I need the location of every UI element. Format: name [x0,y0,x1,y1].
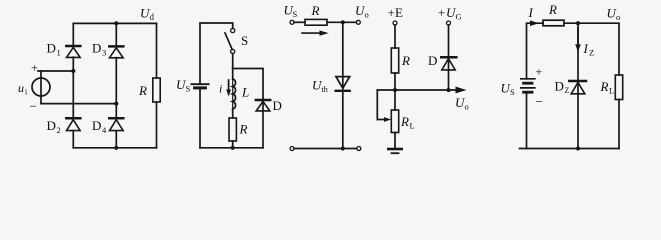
diode D (circuit 2 freewheeling) [256,99,270,147]
switch S [225,28,235,53]
svg-text:3: 3 [102,48,106,58]
svg-text:R: R [401,53,410,68]
label D1 [47,41,61,58]
terminal +U_G [447,21,451,25]
label plus [31,61,38,75]
svg-text:o: o [465,102,469,112]
resistor R (load, circuit 1) [153,23,160,147]
wire output line with nodes [377,89,456,91]
svg-text:L: L [609,86,614,96]
resistor R_L (circuit 5) [615,75,622,149]
label D2 [47,118,61,135]
diode D1 [66,23,80,71]
current arrow i [226,80,231,97]
node bottom junction circuit 5 [576,147,580,151]
diode D (circuit 4) [441,57,456,90]
svg-text:i: i [219,82,222,96]
svg-text:D: D [273,98,282,113]
label R (circuit 2) [239,122,248,137]
label L [241,85,249,100]
svg-text:L: L [241,85,249,100]
diode D2 [66,71,80,148]
svg-text:+: + [438,5,445,20]
resistor R (circuit 4) [391,48,398,73]
label I [528,5,534,20]
wire input to resistor [294,21,305,23]
wire branch to diode top [233,69,263,100]
svg-text:Z: Z [589,48,594,58]
wire left rail bottom circuit 2 [199,90,201,148]
label D (circuit 4) [428,53,437,68]
svg-text:−: − [536,94,543,109]
terminal input top [290,20,294,24]
wire bottom rail circuit 3 [294,148,357,150]
label U_d [140,6,155,23]
wire source minus to right midpoint [41,103,116,105]
label +U_G [438,5,462,22]
ground [388,149,401,153]
svg-text:I: I [528,5,534,20]
wire node down to diode [342,22,344,76]
source u_i [32,71,50,104]
current arrow I_Z [575,28,581,52]
node below D [446,88,450,92]
label S [241,33,248,48]
svg-text:R: R [239,122,248,137]
svg-text:2: 2 [57,125,61,135]
wire top rail [73,22,156,24]
svg-text:L: L [410,121,415,131]
svg-text:1: 1 [57,48,61,58]
diode U_th (pointing down) [336,77,350,91]
terminal output bottom [357,147,361,151]
svg-text:D: D [47,41,56,56]
svg-text:−: − [30,99,37,114]
inductor L [233,69,236,119]
svg-text:D: D [92,41,101,56]
node top-rail junction [114,21,118,25]
wire wiper loop [377,90,385,120]
wire node down through zener branch [577,23,579,80]
current arrow (circuit 3) [302,30,329,35]
node below R circuit 5 [576,21,580,25]
wire node to R_L [394,90,396,110]
label U_th [312,78,328,95]
label R (circuit 3) [311,3,320,18]
resistor R (circuit 5, horizontal) [543,20,564,26]
svg-text:i: i [25,88,28,97]
wire switch to branch junction [232,54,234,69]
svg-text:R: R [400,114,409,129]
battery U_S (circuit 5) [521,79,535,92]
svg-text:D: D [428,53,437,68]
svg-text:S: S [186,84,191,94]
battery U_S (circuit 2) [191,84,208,88]
node bottom-rail junction [114,146,118,150]
label U_o (circuit 5) [607,6,621,23]
node B (right bridge midpoint) [114,102,118,106]
label i [219,82,222,96]
wire resistor to mid node [394,73,396,90]
label minus (circuit 5) [536,94,543,109]
wire top rail circuit 5 [527,23,544,79]
node top junction circuit 3 [341,20,345,24]
zener diode D_Z [569,81,586,149]
wire +U_G to diode [448,25,450,57]
label U_S (circuit 5) [501,81,516,98]
diode D4 [109,104,123,148]
label plus (circuit 5) [536,65,543,79]
svg-text:4: 4 [102,125,107,135]
arrow U_o output [456,87,467,94]
wire resistor to output [327,21,356,23]
label U_S (circuit 2) [176,77,191,94]
potentiometer R_L [391,110,398,133]
wire R_L to ground [394,133,396,149]
svg-text:R: R [311,3,320,18]
label R_L (circuit 5) [600,79,615,96]
svg-text:R: R [600,79,609,94]
wire bottom rail circuit 5 [520,148,620,150]
label U_o (circuit 3) [355,3,369,20]
svg-text:R: R [548,2,557,17]
current arrow I [530,20,539,26]
node bottom junction circuit 2 [231,146,235,150]
wire diode to bottom rail [342,77,344,149]
terminal +E [393,21,397,25]
wire left rail bottom circuit 5 [526,92,528,148]
svg-text:o: o [365,10,369,20]
diode D3 [109,23,123,103]
svg-text:+: + [388,5,395,20]
svg-text:G: G [456,12,462,22]
wire top rail circuit 2 [200,23,233,83]
svg-text:D: D [92,118,101,133]
label R (circuit 5) [548,2,557,17]
label u_i [18,81,28,97]
label I_Z [583,41,595,58]
arrow wiper into R_L [384,117,391,122]
svg-text:o: o [616,12,620,22]
label D4 [92,118,107,135]
label R_L [400,114,415,131]
wire source plus to left midpoint [38,70,73,72]
svg-text:S: S [510,87,515,97]
terminal output top [356,20,360,24]
svg-text:th: th [322,85,328,94]
resistor R (circuit 3, horizontal) [305,19,327,25]
svg-text:+: + [536,65,543,79]
label R (circuit 1) [138,83,147,98]
label minus [30,99,37,114]
wire bottom rail circuit 1 [73,147,156,149]
svg-text:S: S [241,33,248,48]
svg-text:u: u [18,81,24,95]
node bottom junction circuit 3 [341,146,345,150]
wire +E to resistor [394,25,396,48]
resistor R (circuit 2) [229,118,236,148]
label U_S (circuit 3) [284,3,298,20]
label D (circuit 2) [273,98,282,113]
svg-text:+: + [31,61,38,75]
svg-text:D: D [555,79,564,94]
wire bottom rail circuit 2 [200,147,263,149]
label U_o (circuit 4) [455,95,469,112]
svg-text:D: D [47,118,56,133]
node below R [393,88,397,92]
terminal input bottom [290,147,294,151]
label D3 [92,41,106,58]
label +E [388,5,404,20]
svg-text:R: R [138,83,147,98]
svg-text:I: I [583,41,589,56]
node A (left bridge midpoint) [71,69,75,73]
svg-text:d: d [150,12,155,22]
svg-text:E: E [395,5,403,20]
wire R to right rail [564,23,619,75]
svg-text:S: S [293,9,298,19]
svg-text:Z: Z [565,86,570,95]
label D_Z [555,79,570,96]
label R (circuit 4) [401,53,410,68]
